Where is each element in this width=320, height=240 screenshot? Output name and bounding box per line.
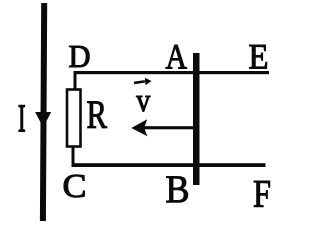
rod AB: sliding conductor bar across the rails	[193, 53, 200, 185]
velocity arrow: arrowhead of v	[131, 119, 147, 136]
wire: segment from resistor R down to node C	[72, 147, 75, 165]
svg-text:I: I	[18, 97, 26, 140]
svg-text:B: B	[166, 168, 190, 211]
velocity arrow: shaft of v pointing left from rod AB	[142, 126, 196, 129]
vector bar: arrow over the v label	[134, 80, 145, 84]
wire: top rail from D to E	[75, 71, 269, 74]
svg-text:C: C	[63, 168, 87, 205]
wire W1: long straight current-carrying conductor	[40, 3, 47, 221]
svg-text:D: D	[69, 39, 91, 74]
svg-text:v: v	[136, 83, 150, 119]
svg-text:F: F	[253, 172, 271, 215]
resistor R	[67, 90, 81, 147]
wire: bottom rail from C to F	[72, 163, 266, 167]
wire: segment from node D down to resistor R	[74, 71, 77, 90]
svg-text:R: R	[87, 92, 108, 137]
svg-text:E: E	[249, 36, 269, 76]
svg-text:A: A	[166, 37, 188, 77]
arrowhead: current direction arrow on wire W1	[35, 112, 51, 128]
